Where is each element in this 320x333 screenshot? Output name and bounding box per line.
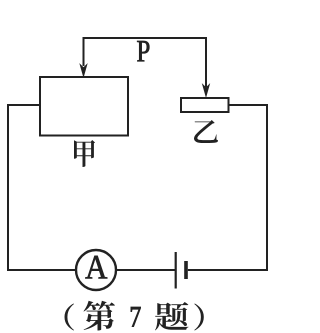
- wire: stub to resistor yi right side: [229, 104, 269, 106]
- caption char 第: [84, 301, 116, 331]
- wire: slider linkage top horizontal: [84, 37, 207, 39]
- caption char 题: [155, 302, 188, 330]
- wire: bottom rail to ammeter: [7, 269, 76, 271]
- wire: left rail down: [7, 104, 9, 270]
- wire: ammeter to battery: [117, 269, 176, 271]
- wire: battery to right rail: [188, 269, 268, 271]
- label 甲: [74, 140, 95, 167]
- label P: [137, 41, 149, 61]
- caption open paren （: [65, 304, 75, 331]
- component box 甲 (meter jia): [40, 77, 128, 136]
- caption close paren ）: [194, 304, 204, 331]
- arrowhead onto box jia: [80, 65, 87, 77]
- wire: slider linkage left vertical drop: [83, 37, 85, 66]
- wire: right rail up: [266, 105, 268, 271]
- ammeter letter A: [85, 256, 107, 279]
- wire: slider linkage right vertical drop: [205, 37, 207, 87]
- caption digit 7: [131, 307, 141, 327]
- battery positive plate (long): [175, 252, 177, 289]
- resistor 乙 (rheostat yi): [181, 98, 229, 112]
- wire: stub from box jia left side: [8, 104, 40, 106]
- label 乙: [194, 120, 218, 143]
- ammeter A1 circle: [76, 250, 116, 290]
- arrowhead onto resistor yi: [203, 85, 210, 97]
- battery negative plate (short thick): [184, 261, 188, 279]
